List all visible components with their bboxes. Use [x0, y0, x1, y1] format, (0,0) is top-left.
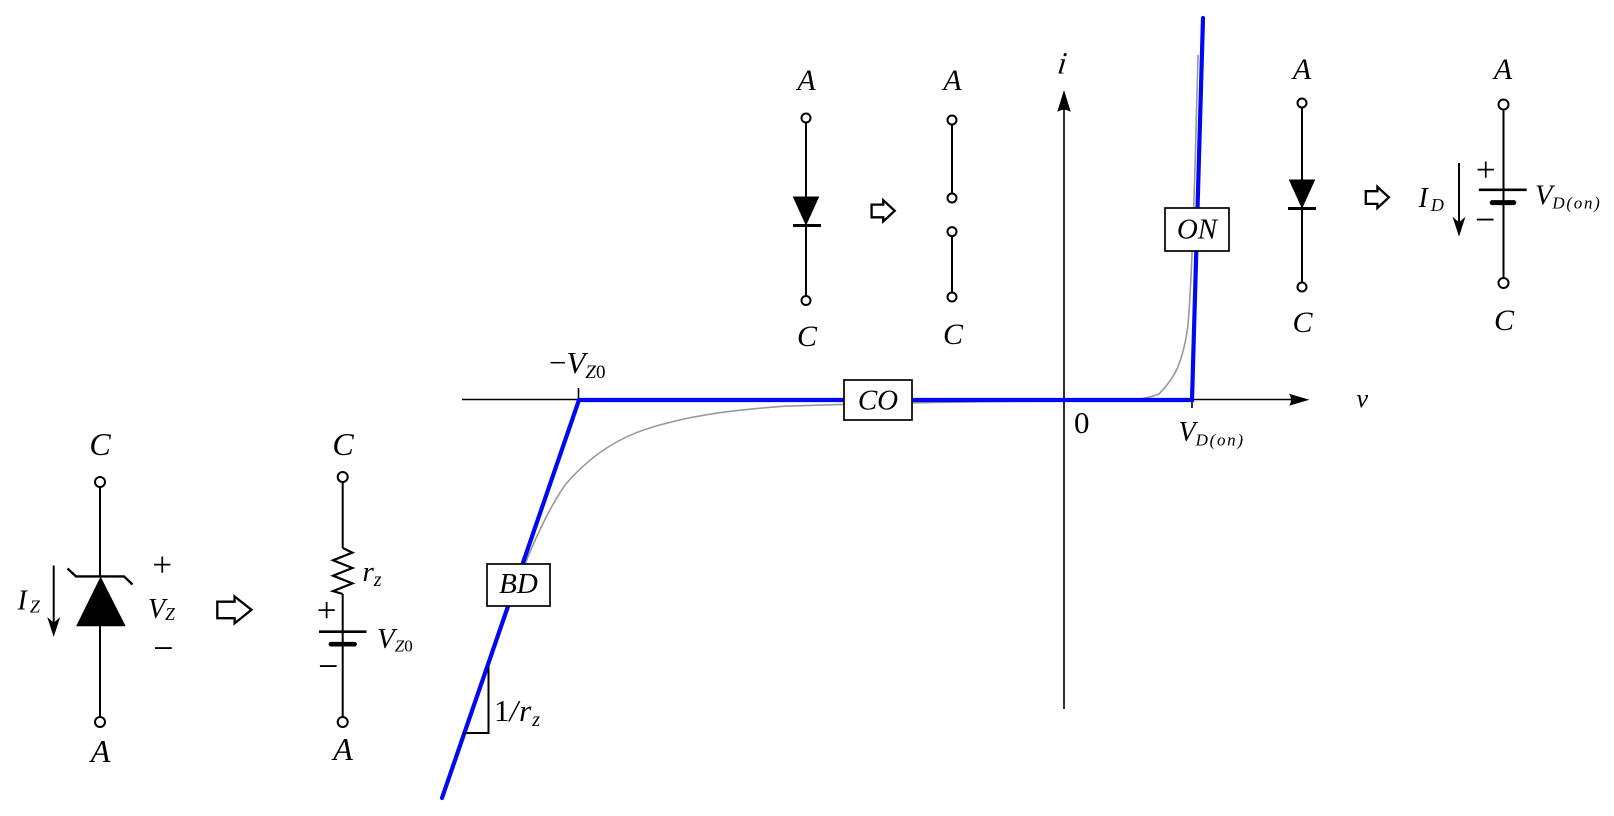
terminal circle A (diode CO)	[802, 114, 811, 123]
svg-text:C: C	[1494, 304, 1515, 337]
wire cathode (diode CO)	[805, 227, 807, 296]
wire lower (open circuit)	[951, 237, 953, 293]
svg-text:C: C	[1292, 306, 1313, 339]
blue piecewise-linear model curve	[442, 18, 1203, 798]
battery Vz0 long plate	[319, 630, 367, 633]
svg-text:A: A	[1492, 53, 1513, 86]
terminal circle A (zener)	[95, 717, 105, 727]
terminal circle 2 (open circuit)	[948, 194, 957, 203]
svg-text:0: 0	[1074, 405, 1090, 440]
svg-text:+: +	[152, 546, 172, 585]
svg-text:C: C	[89, 426, 111, 462]
zener cathode bar with hooks	[68, 569, 133, 585]
svg-text:VD(on): VD(on)	[1535, 181, 1602, 213]
diode ON cathode bar	[1288, 207, 1316, 210]
wire top (battery)	[1503, 110, 1505, 190]
current arrow ID	[1453, 163, 1466, 237]
svg-text:A: A	[1291, 53, 1312, 86]
svg-text:+: +	[1476, 150, 1496, 189]
implication arrow 3 (diode to battery)	[1366, 187, 1389, 208]
wire anode (zener)	[99, 626, 101, 717]
svg-text:i: i	[1056, 46, 1069, 81]
current arrow Iz	[47, 566, 60, 638]
svg-text:C: C	[797, 320, 818, 353]
resistor rz	[333, 548, 352, 594]
svg-text:ID: ID	[1418, 183, 1444, 215]
diode ON triangle	[1290, 180, 1315, 208]
svg-text:A: A	[331, 731, 353, 767]
wire cathode (diode ON)	[1301, 210, 1303, 283]
svg-text:VZ: VZ	[148, 594, 175, 625]
box ON	[1165, 208, 1229, 251]
wire bottom (battery)	[1503, 190, 1505, 279]
battery VDon long plate	[1479, 189, 1527, 192]
wire top (model)	[342, 482, 344, 548]
terminal circle C (zener)	[95, 477, 105, 487]
wire cathode (zener)	[99, 487, 101, 577]
wire resistor to battery	[342, 594, 344, 631]
box CO	[844, 380, 912, 420]
svg-text:A: A	[795, 64, 816, 97]
svg-text:ON: ON	[1177, 214, 1219, 246]
svg-text:IZ: IZ	[17, 586, 41, 617]
wire upper (open circuit)	[951, 125, 953, 194]
svg-text:VD(on): VD(on)	[1179, 417, 1245, 450]
wire anode (diode ON)	[1301, 108, 1303, 181]
implication arrow 2 (diode to open circuit)	[872, 200, 895, 221]
box BD	[487, 564, 550, 606]
slope triangle 1/rz	[463, 667, 489, 733]
wire anode (diode CO)	[805, 123, 807, 198]
terminal circle 4 (open circuit)	[948, 293, 957, 302]
svg-text:−: −	[1475, 200, 1495, 240]
battery VDon short plate	[1492, 200, 1514, 205]
terminal circle C (battery)	[1499, 278, 1509, 288]
svg-text:v: v	[1357, 384, 1369, 413]
svg-text:A: A	[89, 733, 111, 769]
diode CO triangle	[794, 197, 819, 225]
zener triangle	[77, 578, 125, 626]
svg-text:C: C	[332, 426, 354, 462]
svg-text:C: C	[943, 318, 964, 351]
tick at -Vz0	[578, 388, 580, 400]
terminal circle C (diode ON)	[1298, 283, 1307, 292]
terminal circle 3 (open circuit)	[948, 227, 957, 236]
tick at VD(on)	[1191, 400, 1193, 408]
implication arrow 1 (zener to model)	[217, 597, 251, 624]
wire bottom (model)	[342, 632, 344, 717]
svg-text:A: A	[941, 64, 962, 97]
svg-text:rz: rz	[363, 556, 382, 591]
svg-text:VZ0: VZ0	[377, 623, 413, 656]
terminal circle A (diode ON)	[1298, 99, 1307, 108]
svg-text:1/rz: 1/rz	[494, 693, 540, 731]
terminal circle 1 (open circuit)	[948, 116, 957, 125]
svg-text:BD: BD	[499, 568, 538, 600]
diode CO cathode bar	[793, 224, 821, 227]
terminal circle C (model)	[338, 472, 348, 482]
gray actual i-v characteristic curve	[441, 55, 1199, 799]
svg-text:−: −	[153, 628, 173, 668]
svg-text:−: −	[318, 646, 338, 686]
svg-text:−VZ0: −VZ0	[549, 345, 606, 383]
terminal circle C (diode CO)	[802, 296, 811, 305]
battery Vz0 short plate	[331, 642, 355, 647]
terminal circle A (model)	[338, 717, 348, 727]
svg-text:CO: CO	[858, 385, 898, 417]
i axis (vertical)	[1057, 90, 1071, 709]
terminal circle A (battery)	[1499, 100, 1509, 110]
svg-text:+: +	[317, 591, 337, 630]
v axis (horizontal)	[462, 394, 1310, 406]
